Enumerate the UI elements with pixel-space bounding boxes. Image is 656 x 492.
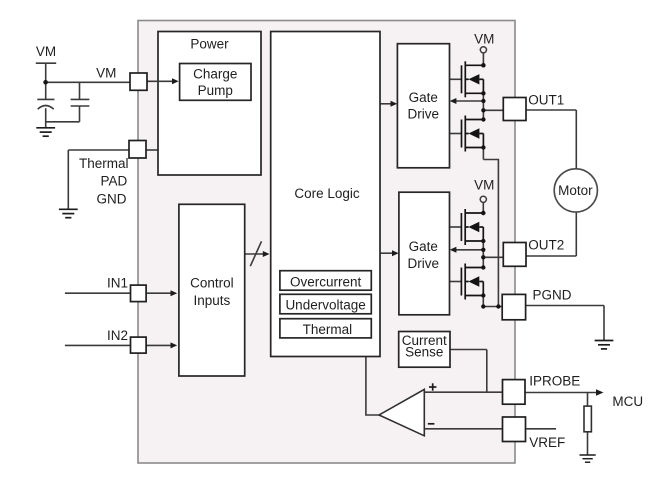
svg-text:VM: VM	[474, 178, 494, 193]
svg-text:Thermal: Thermal	[303, 322, 353, 337]
svg-text:Inputs: Inputs	[194, 293, 231, 308]
svg-text:Gate: Gate	[409, 239, 438, 254]
svg-text:PGND: PGND	[533, 288, 572, 303]
svg-text:Core Logic: Core Logic	[294, 186, 360, 201]
svg-text:Undervoltage: Undervoltage	[285, 298, 365, 313]
svg-text:VREF: VREF	[529, 435, 565, 450]
svg-text:OUT2: OUT2	[528, 237, 564, 252]
svg-text:IN1: IN1	[107, 276, 128, 291]
svg-text:Thermal: Thermal	[79, 156, 129, 171]
svg-text:VM: VM	[474, 32, 494, 47]
svg-text:Charge: Charge	[193, 67, 237, 82]
svg-text:Drive: Drive	[408, 107, 440, 122]
svg-text:VM: VM	[96, 66, 116, 81]
svg-text:OUT1: OUT1	[528, 92, 564, 107]
svg-text:Sense: Sense	[405, 345, 443, 360]
svg-text:Overcurrent: Overcurrent	[290, 275, 362, 290]
svg-text:Gate: Gate	[409, 90, 438, 105]
svg-text:VM: VM	[36, 44, 56, 59]
svg-text:IN2: IN2	[107, 328, 128, 343]
svg-text:IPROBE: IPROBE	[529, 374, 580, 389]
svg-text:Pump: Pump	[198, 83, 233, 98]
svg-text:PAD: PAD	[101, 173, 128, 188]
svg-text:GND: GND	[97, 192, 127, 207]
svg-text:Power: Power	[190, 37, 229, 52]
svg-text:Drive: Drive	[408, 256, 440, 271]
svg-text:Motor: Motor	[558, 183, 593, 198]
svg-text:Control: Control	[190, 276, 234, 291]
svg-text:MCU: MCU	[612, 394, 643, 409]
